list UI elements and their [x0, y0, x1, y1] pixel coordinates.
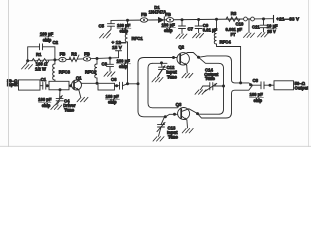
wire: inner ring top-left stub	[153, 62, 168, 64]
svg-text:C11: C11	[252, 25, 260, 30]
svg-text:FT: FT	[231, 32, 237, 37]
svg-text:FB: FB	[141, 12, 147, 17]
svg-text:Tune: Tune	[167, 74, 178, 79]
node: C12 junction	[160, 61, 163, 64]
value label 100 pF chip (C5)	[117, 23, 131, 34]
svg-text:100 pF: 100 pF	[162, 22, 176, 27]
wire: output line	[252, 84, 274, 86]
transistor Q2	[177, 53, 199, 78]
node: Q3 collector	[196, 112, 199, 115]
svg-text:15 V: 15 V	[112, 45, 123, 51]
svg-text:100 pF: 100 pF	[38, 97, 52, 102]
resistor R3	[226, 17, 240, 21]
svg-text:100 pF: 100 pF	[117, 23, 131, 28]
output port box	[274, 81, 294, 90]
value 100 pF chip (C7)	[162, 22, 176, 33]
wire: Q3 collector outer feed to output node	[198, 86, 253, 118]
svg-text:RFC2: RFC2	[85, 70, 97, 75]
svg-text:C6: C6	[111, 77, 117, 82]
scan border left	[7, 0, 9, 147]
inductor RFC3	[53, 60, 55, 81]
value 10 uF 35 V	[267, 24, 278, 35]
svg-text:+21—33 V: +21—33 V	[276, 17, 300, 23]
value 100 ohm 1/2 W	[35, 62, 48, 72]
wire: top supply rail	[111, 19, 274, 21]
variable capacitor C12 input tune	[152, 63, 166, 82]
inductor RFC1	[125, 20, 127, 84]
svg-text:FB: FB	[60, 52, 66, 57]
resistor R1 100 ohm 1/2 W	[32, 59, 49, 63]
capacitor C2 (parallel with R1)	[28, 44, 55, 61]
svg-text:chip: chip	[164, 28, 173, 33]
svg-text:C2: C2	[53, 40, 59, 45]
svg-text:Tune: Tune	[168, 135, 179, 140]
wire to Q1 base	[69, 85, 74, 87]
wire: outer ring bottom-left corner + bottom edge	[138, 111, 181, 117]
wire: inner ring left vertical with chamfers	[148, 63, 178, 108]
svg-text:Q3: Q3	[176, 102, 182, 107]
wire: inner ring right loop	[198, 57, 224, 114]
value 100 pF chip (C6)	[106, 94, 120, 105]
capacitor C3	[104, 58, 115, 76]
capacitor C7	[176, 20, 187, 39]
node: RFC4 tap	[215, 18, 218, 21]
svg-text:C1: C1	[41, 77, 47, 82]
value 100 pF chip (C2)	[40, 32, 54, 43]
stripline box (Q1 output)	[98, 83, 115, 90]
labels C14 Output Tune	[204, 68, 219, 82]
label 50 ohm input	[7, 79, 18, 88]
wire: input line to splitter	[123, 84, 139, 86]
ground at R1 left	[22, 61, 33, 69]
transistor Q3	[178, 108, 198, 133]
node: C11 tap	[262, 17, 265, 20]
wire: Q2 collector outer feed to output node	[199, 56, 253, 85]
svg-text:Tune: Tune	[205, 76, 216, 81]
svg-text:1N4747A: 1N4747A	[149, 9, 167, 14]
wire: outer ring left vertical + top edge	[138, 58, 177, 112]
inductor RFC2	[95, 59, 97, 84]
svg-text:FB: FB	[84, 52, 90, 57]
capacitor C9	[193, 20, 204, 38]
svg-text:Q1: Q1	[76, 75, 82, 80]
svg-text:chip: chip	[119, 64, 128, 69]
svg-text:chip: chip	[43, 37, 52, 42]
label 50 ohm output	[295, 81, 310, 91]
transistor Q1	[72, 80, 89, 102]
node: RFC4 feed	[239, 81, 242, 84]
svg-text:35 V: 35 V	[267, 29, 276, 34]
node: RFC2 tap	[96, 57, 99, 60]
labels C4 Driver Tune	[63, 98, 76, 112]
ferrite bead FB4	[166, 18, 173, 22]
node: Q2 base line	[172, 56, 175, 59]
svg-text:100 pF: 100 pF	[106, 94, 120, 99]
node: C3 tap	[109, 57, 112, 60]
resistor R2	[69, 55, 79, 62]
svg-text:R1: R1	[36, 52, 42, 57]
input port box	[19, 80, 41, 90]
node	[269, 84, 272, 87]
node	[53, 58, 56, 61]
value 100 pF chip (C3)	[117, 59, 131, 70]
node: C7 tap	[181, 18, 184, 21]
node: C13 junction	[164, 115, 167, 118]
capacitor C11	[258, 19, 269, 37]
scan border bottom	[0, 145, 311, 147]
node	[26, 59, 29, 62]
svg-text:chip: chip	[120, 29, 129, 34]
svg-text:C7: C7	[188, 27, 194, 32]
svg-text:C10: C10	[236, 21, 244, 26]
labels C13 Input Tune	[167, 125, 179, 139]
svg-text:C3: C3	[102, 61, 108, 66]
terminal +21-33 V	[273, 15, 275, 22]
svg-text:Q2: Q2	[178, 44, 184, 49]
svg-text:RFC1: RFC1	[132, 36, 144, 41]
feedthrough capacitor C10	[244, 17, 255, 37]
svg-text:chip: chip	[108, 100, 117, 105]
variable capacitor C4 driver tune	[51, 90, 63, 110]
capacitor C8	[261, 82, 264, 89]
ferrite bead FB3	[140, 18, 147, 22]
value 100 pF chip (C1)	[38, 97, 52, 108]
node: output convergence	[249, 83, 252, 86]
wire	[115, 85, 120, 87]
svg-text:RFC3: RFC3	[59, 70, 71, 75]
capacitor C1	[43, 82, 49, 89]
scan border right	[308, 0, 310, 147]
svg-text:RFC4: RFC4	[220, 40, 232, 45]
svg-text:R2: R2	[71, 52, 77, 57]
value 100 pF chip (C8)	[250, 92, 264, 103]
svg-text:Output: Output	[295, 86, 310, 91]
node: box bottom tap	[59, 88, 62, 91]
svg-text:100 pF: 100 pF	[40, 32, 54, 37]
ferrite bead FB1	[59, 57, 66, 61]
inductor RFC4	[214, 19, 240, 83]
labels C12 Input Tune	[166, 65, 177, 79]
variable capacitor C14 output tune	[195, 83, 224, 95]
wire: Q1 collector	[81, 82, 98, 84]
node	[96, 82, 99, 85]
node: RFC1 junction	[126, 82, 129, 85]
node: C9 tap	[197, 18, 200, 21]
variable capacitor C13 input tune	[153, 117, 165, 141]
svg-text:100 pF: 100 pF	[250, 92, 264, 97]
node	[46, 84, 49, 87]
node	[115, 84, 118, 87]
svg-text:C8: C8	[253, 78, 259, 83]
svg-text:Tune: Tune	[64, 107, 75, 112]
svg-text:chip: chip	[254, 98, 263, 103]
wire	[40, 85, 43, 87]
capacitor C6	[120, 82, 123, 89]
svg-text:FB: FB	[165, 12, 171, 17]
wire: bias rail	[28, 58, 119, 61]
value 0.001 uF FT	[226, 27, 243, 37]
svg-text:R3: R3	[231, 11, 237, 16]
svg-text:1/2 W: 1/2 W	[35, 67, 46, 72]
svg-text:100 pF: 100 pF	[117, 59, 131, 64]
node	[173, 113, 176, 116]
node: Q2 collector	[197, 56, 200, 59]
svg-text:C5: C5	[99, 24, 105, 29]
capacitor C5	[100, 20, 115, 38]
node: C14/inner ring	[222, 85, 225, 88]
ferrite bead FB2	[83, 57, 90, 61]
node: RFC1 tap on rail	[126, 19, 129, 22]
terminal +12-15 V	[116, 51, 122, 58]
label +12-15 V	[112, 40, 126, 51]
svg-text:chip: chip	[42, 103, 51, 108]
stripline box (Q1 input)	[49, 81, 69, 90]
diode D1 1N4747A	[158, 17, 164, 23]
node: outer ring junction	[137, 82, 140, 85]
node	[69, 84, 72, 87]
svg-text:10 µF: 10 µF	[267, 24, 278, 29]
